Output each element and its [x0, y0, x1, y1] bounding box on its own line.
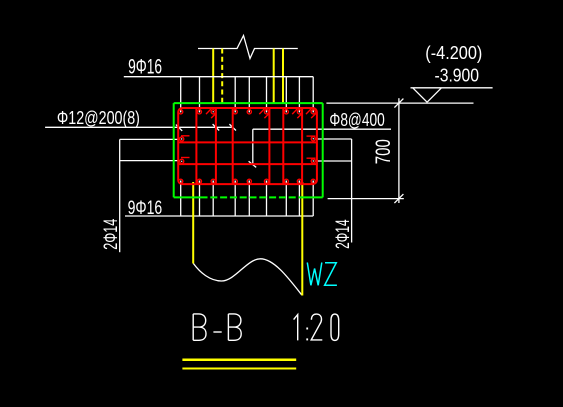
- svg-text:-3.900: -3.900: [435, 66, 480, 86]
- column rebar Y1 (yellow solid): [212, 49, 214, 105]
- bottom row 9Φ16 bar circles: [179, 179, 316, 183]
- svg-text:2Φ14: 2Φ14: [332, 219, 354, 249]
- pile rebar left (yellow): [192, 182, 194, 264]
- dimension 700: dimension line: [398, 98, 400, 203]
- svg-text:9Φ16: 9Φ16: [128, 55, 162, 78]
- title scale 1:20: [294, 314, 339, 340]
- stirrup hook hash marks (red): [206, 108, 316, 118]
- dimension tick bottom: [394, 194, 403, 203]
- top row 9Φ16 bar circles: [179, 110, 316, 114]
- title underline double (yellow): [182, 359, 296, 362]
- cap top edge line / 9Φ16 top underline: [124, 76, 313, 78]
- title B-B: [193, 314, 241, 340]
- leader line for Φ8@400: [249, 129, 391, 167]
- right beam step outline: [315, 139, 352, 243]
- stirrup inner vertical legs (red): [196, 108, 302, 184]
- svg-text:(-4.200): (-4.200): [425, 43, 482, 63]
- white dots inside bar circles: [180, 111, 314, 182]
- column rebar Y2 (yellow dashed): [221, 49, 223, 105]
- leader line for Φ12@200(8): [45, 124, 236, 131]
- tie hook right row2: [307, 158, 316, 163]
- tie bar rows (red horizontals): [178, 141, 317, 143]
- elevation marker line: [411, 87, 493, 89]
- svg-text:Φ8@400: Φ8@400: [329, 109, 384, 130]
- column rebar Y3 (yellow solid): [273, 49, 275, 105]
- svg-text:700: 700: [372, 139, 395, 164]
- column rebar Y4 (yellow solid): [282, 49, 284, 105]
- dimension tick top: [394, 99, 403, 108]
- label WZ (cyan): [307, 263, 337, 286]
- tie hook left row2: [180, 158, 190, 164]
- stirrup cage outer rectangle (red): [178, 108, 317, 184]
- tie hook right row1: [307, 136, 316, 141]
- tie hook left row1: [180, 136, 190, 141]
- pile cap concrete outline (green): [174, 103, 323, 197]
- pile break wavy line: [193, 259, 301, 295]
- cap bottom line / 9Φ16 bottom underline: [125, 215, 313, 217]
- svg-text:Φ12@200(8): Φ12@200(8): [57, 107, 140, 128]
- left beam step outline: [120, 139, 180, 252]
- column top outline with break symbol: [198, 36, 298, 59]
- dimension 700: extension lines: [326, 102, 473, 104]
- elevation marker triangle: [413, 88, 442, 102]
- 9 bar verticals above cage: [181, 77, 314, 113]
- svg-text:9Φ16: 9Φ16: [128, 198, 163, 219]
- pile rebar right (yellow): [301, 182, 303, 296]
- 9 bar verticals below cage: [181, 181, 314, 217]
- svg-text:2Φ14: 2Φ14: [100, 219, 122, 250]
